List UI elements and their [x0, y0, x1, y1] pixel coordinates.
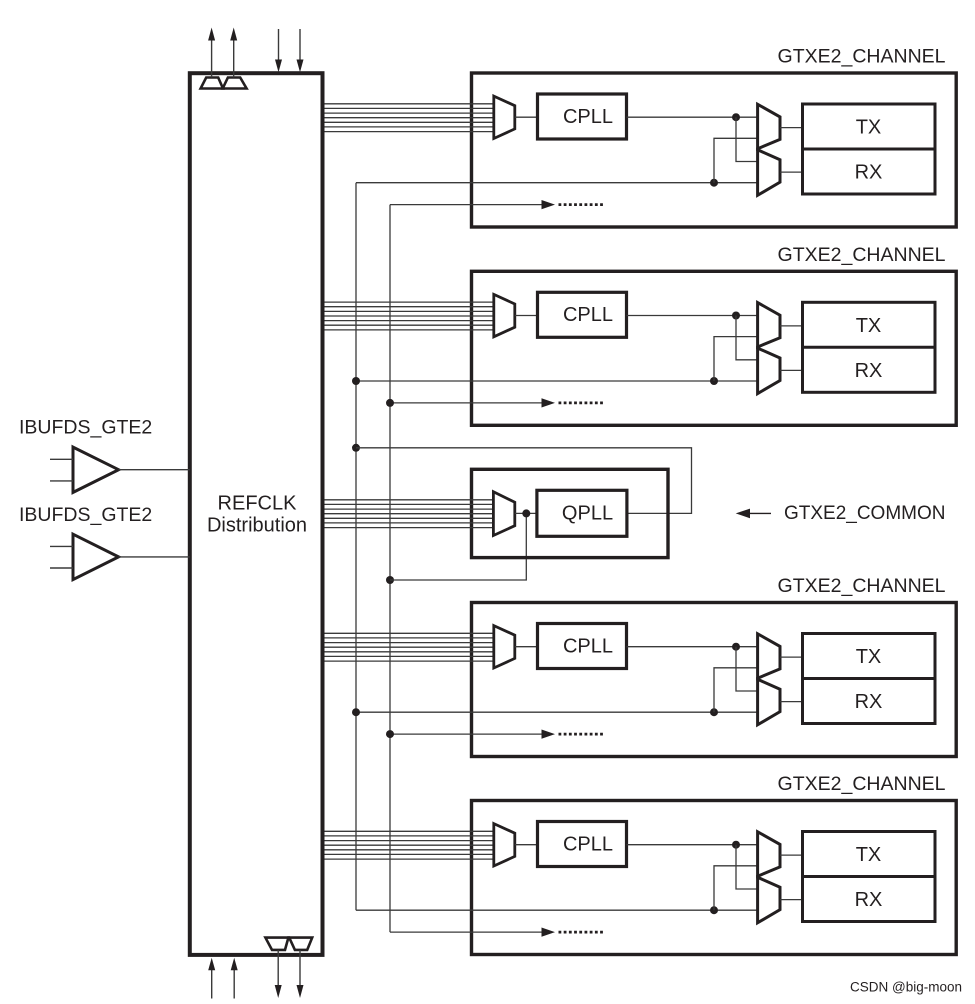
svg-text:IBUFDS_GTE2: IBUFDS_GTE2 [19, 417, 152, 439]
svg-text:GTXE2_COMMON: GTXE2_COMMON [784, 503, 946, 524]
svg-text:CSDN @big-moon: CSDN @big-moon [850, 980, 962, 995]
svg-text:QPLL: QPLL [562, 503, 613, 525]
svg-text:REFCLK: REFCLK [218, 493, 298, 515]
svg-text:IBUFDS_GTE2: IBUFDS_GTE2 [19, 504, 152, 526]
svg-text:Distribution: Distribution [207, 515, 307, 537]
